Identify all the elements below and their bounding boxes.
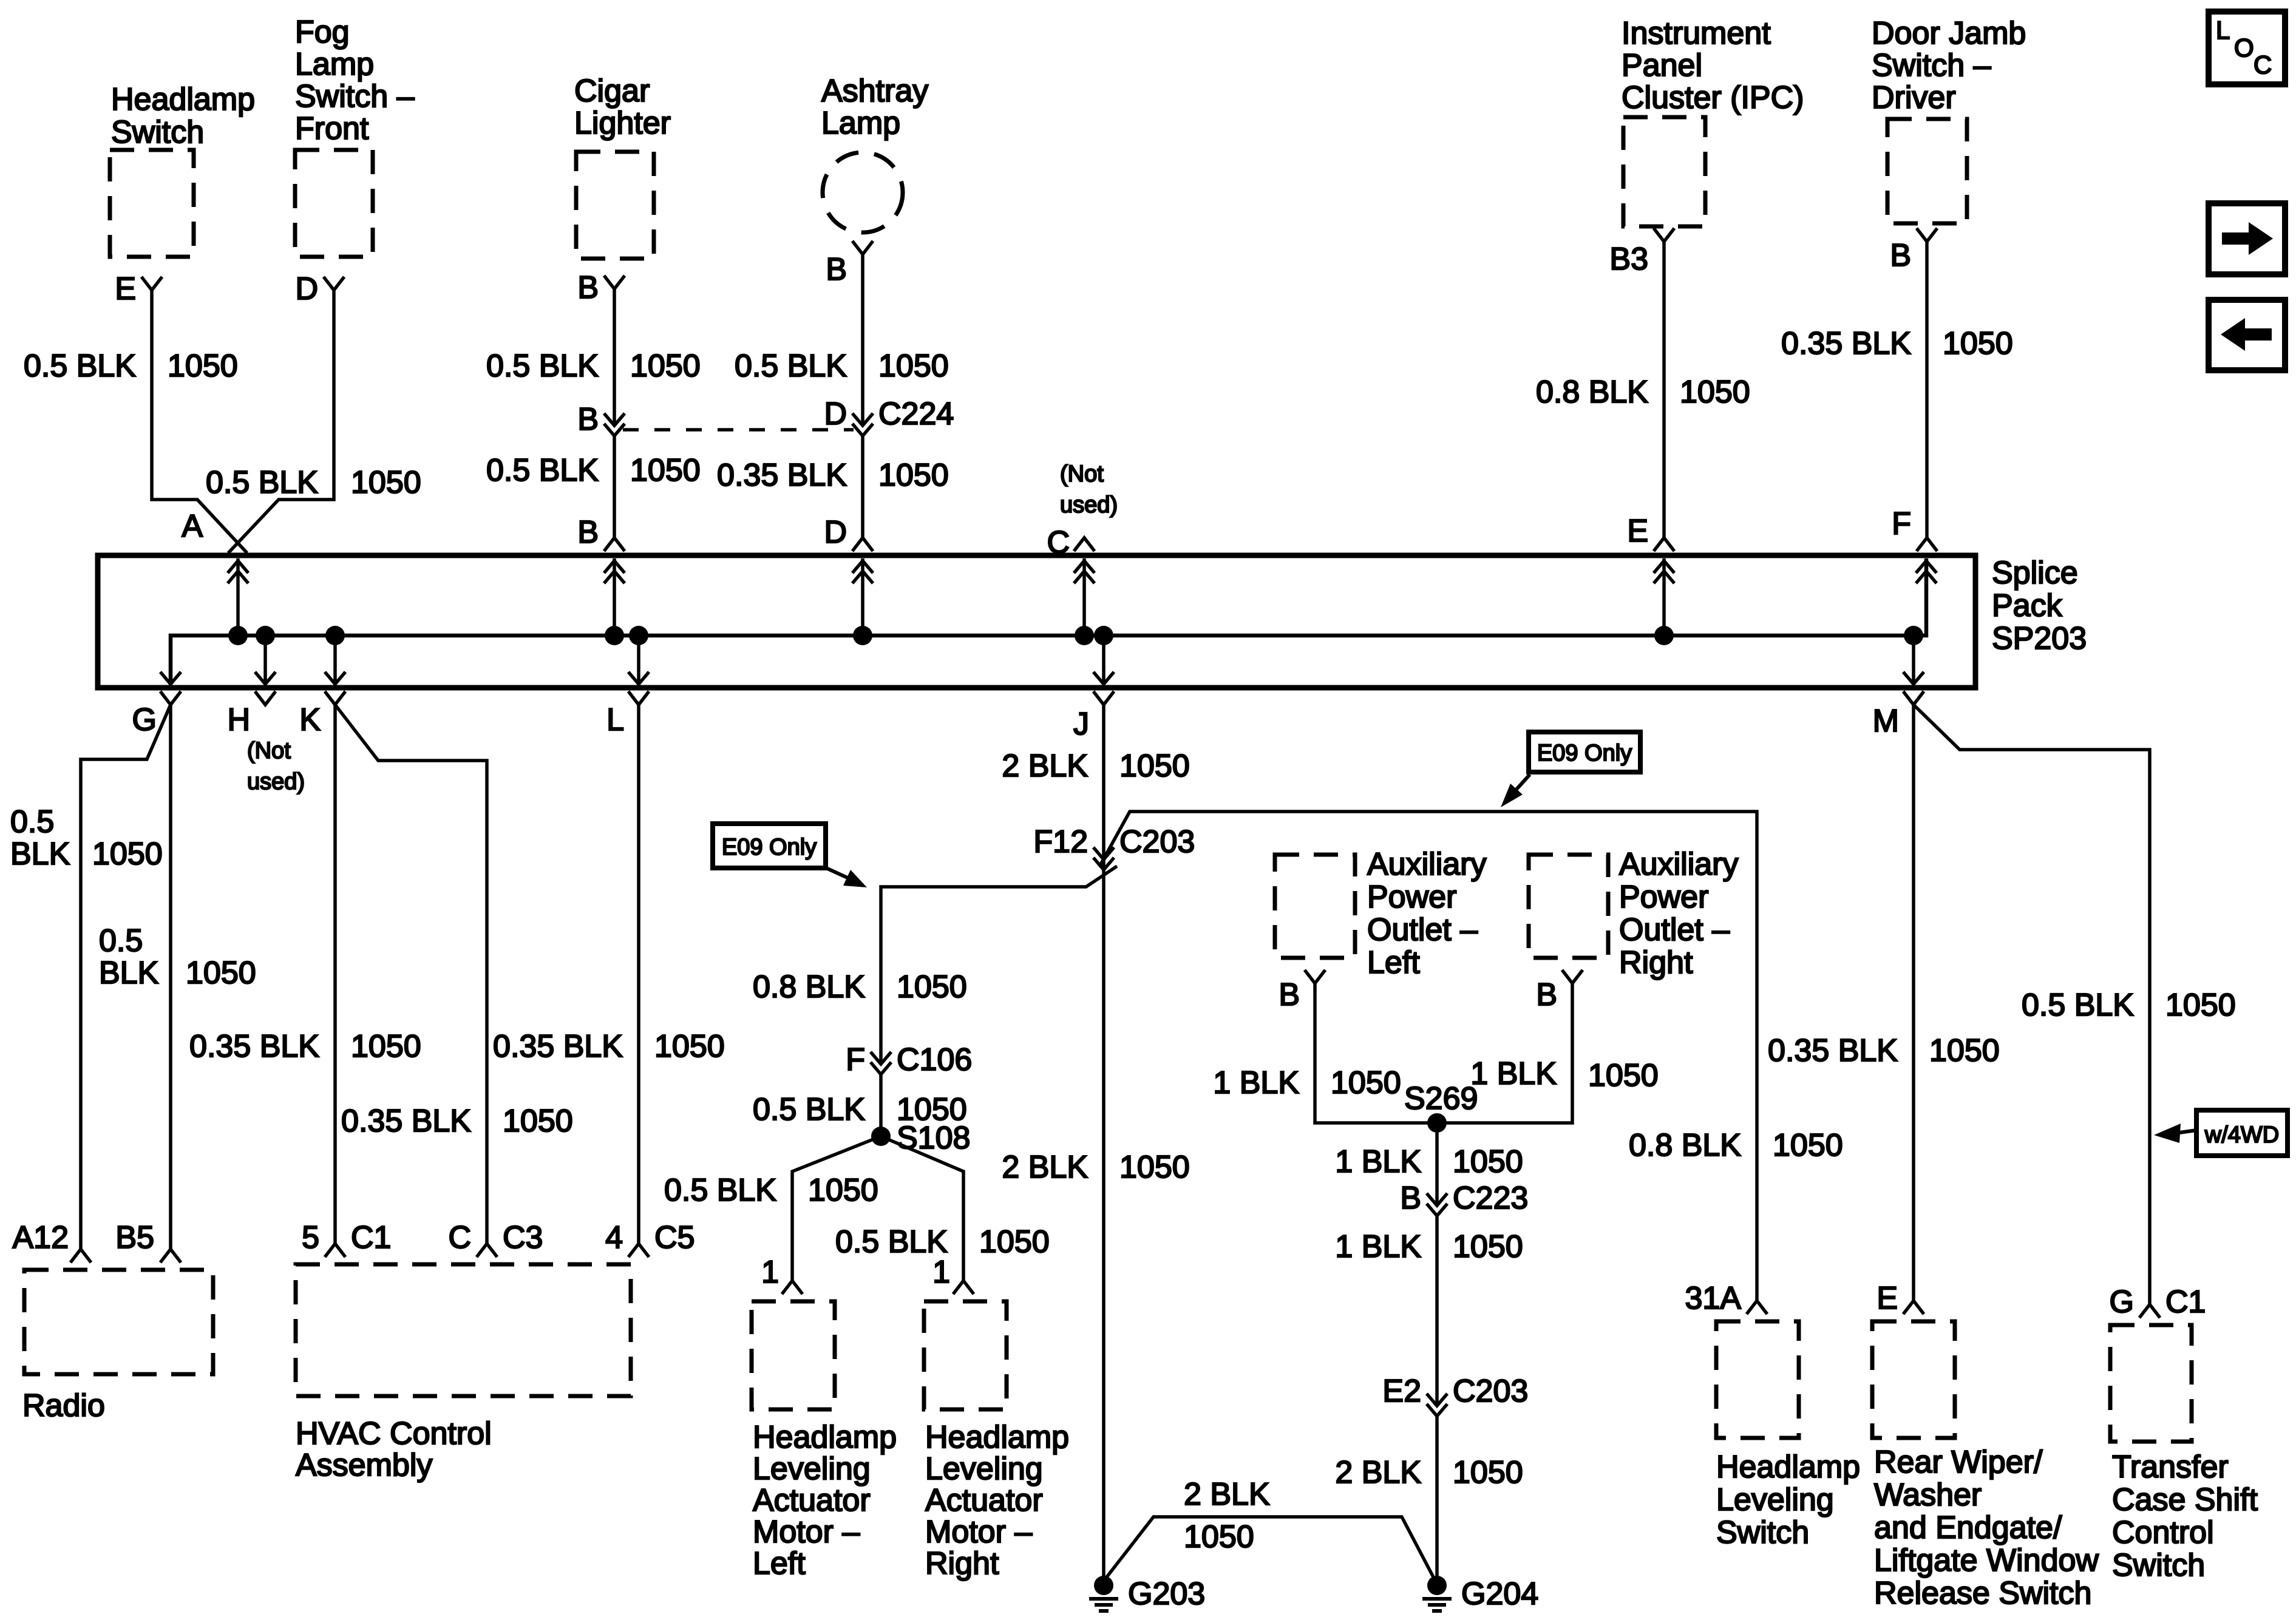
svg-text:Washer: Washer: [1874, 1477, 1982, 1513]
svg-text:S269: S269: [1404, 1081, 1478, 1116]
left arrow legend box: [2209, 300, 2285, 370]
svg-text:0.5 BLK: 0.5 BLK: [664, 1173, 776, 1208]
svg-text:Radio: Radio: [22, 1388, 105, 1423]
svg-text:Headlamp: Headlamp: [1716, 1449, 1860, 1485]
splice S108: [871, 1127, 891, 1146]
headlamp leveling actuator motor right box: [924, 1301, 1007, 1409]
svg-text:Switch: Switch: [1716, 1515, 1809, 1550]
terminal fork D fog lamp switch: [324, 277, 344, 290]
wire D fog lamp switch to splice A: [228, 290, 334, 553]
svg-text:C203: C203: [1453, 1374, 1528, 1409]
svg-text:Transfer: Transfer: [2112, 1449, 2229, 1485]
svg-text:F: F: [1892, 506, 1911, 541]
fork into transfer case switch: [2139, 1304, 2160, 1318]
wire S108 to left actuator: [792, 1136, 881, 1281]
svg-text:used): used): [247, 769, 305, 795]
door jamb switch box: [1887, 119, 1967, 223]
connector C106: [871, 1052, 891, 1064]
auxiliary power outlet left box: [1275, 855, 1355, 958]
svg-text:2 BLK: 2 BLK: [1002, 1150, 1088, 1185]
svg-text:0.5 BLK: 0.5 BLK: [2022, 988, 2134, 1023]
E09 only callout right: [1529, 732, 1640, 772]
svg-text:1050: 1050: [1943, 326, 2013, 361]
svg-text:0.35 BLK: 0.35 BLK: [1781, 326, 1911, 361]
svg-text:Left: Left: [1367, 945, 1420, 980]
wire J down to ground G203: [1102, 705, 1106, 1577]
connector C203 at E2: [1427, 1394, 1447, 1406]
fork into HVAC C5: [628, 1244, 649, 1257]
svg-text:C3: C3: [503, 1220, 543, 1255]
wire cigar C224 to splice B: [613, 436, 616, 540]
svg-text:E09 Only: E09 Only: [1537, 741, 1632, 766]
terminal fork B ashtray lamp: [852, 241, 873, 254]
svg-text:Leveling: Leveling: [1716, 1482, 1834, 1517]
wire S108 to right actuator: [881, 1136, 963, 1281]
svg-text:Lighter: Lighter: [574, 106, 671, 141]
svg-text:J: J: [1073, 707, 1089, 742]
svg-text:1050: 1050: [1453, 1144, 1523, 1179]
svg-text:E09 Only: E09 Only: [722, 835, 817, 860]
svg-text:Fog: Fog: [295, 15, 350, 50]
svg-text:0.5 BLK: 0.5 BLK: [753, 1092, 865, 1127]
svg-text:L: L: [606, 702, 624, 737]
svg-text:Switch: Switch: [2112, 1548, 2205, 1583]
stub fork C not used: [1074, 538, 1095, 551]
wire door jamb B to splice F: [1925, 242, 1929, 540]
svg-text:O: O: [2234, 33, 2254, 62]
splice pack SP203 outline: [98, 555, 1975, 688]
fork into headlamp leveling switch: [1747, 1301, 1767, 1314]
svg-text:G: G: [2110, 1284, 2134, 1320]
svg-text:S108: S108: [897, 1120, 970, 1156]
wire ashtray C224 to splice D: [861, 436, 864, 540]
terminal fork B3 IPC: [1654, 228, 1674, 242]
svg-text:0.35 BLK: 0.35 BLK: [717, 458, 847, 493]
svg-text:0.5: 0.5: [10, 804, 54, 839]
wire S269 to C223: [1435, 1123, 1439, 1205]
svg-text:1050: 1050: [878, 458, 949, 493]
svg-text:1050: 1050: [1119, 748, 1190, 784]
wire K to HVAC C1 pin 5: [333, 705, 337, 1244]
svg-text:E: E: [1877, 1281, 1898, 1316]
fork below splice L: [628, 691, 649, 705]
fork into actuator motor left: [782, 1281, 803, 1294]
svg-text:0.35 BLK: 0.35 BLK: [341, 1103, 471, 1139]
splice pack internal bus: [171, 636, 1914, 685]
svg-text:4: 4: [605, 1220, 623, 1255]
wire L to HVAC C5 pin 4: [637, 705, 640, 1244]
svg-text:1050: 1050: [1680, 375, 1750, 410]
svg-text:B: B: [1890, 238, 1911, 273]
svg-text:1050: 1050: [1453, 1455, 1523, 1490]
svg-text:B: B: [826, 252, 847, 287]
svg-text:2 BLK: 2 BLK: [1002, 748, 1088, 784]
svg-text:1050: 1050: [1929, 1033, 2000, 1068]
svg-text:1050: 1050: [168, 348, 238, 384]
svg-text:1050: 1050: [897, 969, 967, 1005]
svg-text:Front: Front: [295, 111, 369, 146]
terminal fork B door jamb: [1917, 228, 1937, 242]
svg-text:BLK: BLK: [99, 955, 159, 991]
connector C223: [1427, 1193, 1447, 1205]
svg-text:B: B: [577, 515, 599, 550]
svg-text:Switch –: Switch –: [295, 79, 415, 114]
svg-text:Splice: Splice: [1992, 555, 2078, 591]
svg-text:1050: 1050: [630, 348, 701, 384]
svg-text:Leveling: Leveling: [925, 1451, 1043, 1486]
E09 branch wire to S108: [881, 866, 1117, 1064]
svg-text:B: B: [1536, 977, 1557, 1012]
wire G to radio B5: [169, 705, 172, 1249]
radio box: [24, 1270, 213, 1374]
svg-text:Headlamp: Headlamp: [111, 82, 255, 117]
svg-text:D: D: [295, 271, 318, 307]
svg-text:0.5 BLK: 0.5 BLK: [835, 1224, 948, 1259]
svg-text:2 BLK: 2 BLK: [1184, 1477, 1270, 1512]
terminal fork B cigar lighter: [604, 276, 625, 289]
svg-text:C223: C223: [1453, 1181, 1528, 1216]
wire cigar lighter B to C224: [613, 289, 616, 425]
right arrow legend box: [2209, 203, 2285, 274]
svg-text:0.8 BLK: 0.8 BLK: [753, 969, 865, 1005]
svg-text:1 BLK: 1 BLK: [1335, 1144, 1421, 1179]
svg-text:Motor –: Motor –: [925, 1514, 1032, 1550]
svg-text:1050: 1050: [1119, 1150, 1190, 1185]
svg-text:2 BLK: 2 BLK: [1335, 1455, 1421, 1490]
wire ashtray B to C224: [861, 254, 864, 425]
svg-text:Lamp: Lamp: [295, 47, 374, 82]
ground G204: [1427, 1576, 1447, 1595]
svg-text:1050: 1050: [503, 1103, 573, 1139]
svg-text:Control: Control: [2112, 1515, 2214, 1550]
terminal fork B aux outlet right: [1562, 970, 1583, 983]
svg-text:HVAC Control: HVAC Control: [296, 1416, 492, 1451]
wire M to rear wiper switch E: [1912, 705, 1915, 1301]
wire C106 to S108: [879, 1074, 883, 1136]
terminal fork E headlamp switch: [141, 277, 162, 290]
svg-text:K: K: [299, 702, 321, 737]
fork into splice pack E: [1654, 538, 1674, 551]
svg-text:Door Jamb: Door Jamb: [1872, 16, 2026, 51]
wire M branch to transfer case switch: [1914, 705, 2150, 1304]
svg-text:Lamp: Lamp: [821, 106, 900, 141]
svg-text:B5: B5: [115, 1220, 154, 1255]
wire E2 to ground G204: [1435, 1416, 1439, 1577]
wire IPC B3 to splice E: [1662, 242, 1666, 540]
fork below splice K: [325, 691, 345, 705]
connector C203 at F12: [1093, 847, 1114, 859]
fork into splice pack B: [604, 538, 625, 551]
ground link wire 2 BLK 1050: [1105, 1517, 1435, 1579]
svg-text:Cluster (IPC): Cluster (IPC): [1622, 80, 1804, 115]
svg-text:1050: 1050: [808, 1173, 878, 1208]
connector C224 ashtray side: [852, 413, 873, 425]
headlamp leveling actuator motor left box: [752, 1301, 835, 1409]
svg-text:C1: C1: [351, 1220, 391, 1255]
svg-text:Right: Right: [925, 1546, 999, 1581]
svg-text:1050: 1050: [979, 1224, 1050, 1259]
svg-text:used): used): [1060, 492, 1118, 518]
svg-text:1050: 1050: [1331, 1065, 1401, 1100]
svg-text:Power: Power: [1367, 880, 1456, 915]
svg-text:0.35 BLK: 0.35 BLK: [189, 1029, 319, 1064]
svg-text:Switch: Switch: [111, 115, 204, 150]
svg-text:1050: 1050: [1184, 1519, 1254, 1554]
fog lamp switch box: [295, 150, 373, 257]
wire G branch to radio A12: [81, 705, 171, 1249]
svg-text:0.8 BLK: 0.8 BLK: [1536, 375, 1648, 410]
fork into radio A12: [70, 1249, 91, 1263]
wire aux left to S269: [1315, 983, 1437, 1123]
connector C224 cigar side: [604, 413, 625, 425]
svg-text:Cigar: Cigar: [574, 73, 650, 109]
w/4WD callout: [2196, 1110, 2288, 1156]
svg-text:Auxiliary: Auxiliary: [1367, 847, 1487, 882]
svg-text:Actuator: Actuator: [753, 1483, 871, 1518]
svg-text:D: D: [824, 515, 847, 550]
svg-text:1: 1: [761, 1255, 779, 1290]
wire C223 to C203 E2: [1435, 1216, 1439, 1406]
svg-text:1050: 1050: [186, 955, 256, 991]
svg-text:0.5 BLK: 0.5 BLK: [735, 348, 847, 384]
headlamp switch box: [110, 150, 194, 257]
transfer case shift control switch box: [2110, 1325, 2192, 1442]
svg-text:(Not: (Not: [247, 738, 291, 764]
internal down arrows: [263, 636, 267, 685]
dashed connector line C224: [623, 428, 854, 432]
fork into actuator motor right: [953, 1281, 974, 1294]
stub fork H not used: [255, 691, 276, 705]
E09 only callout left: [713, 824, 826, 868]
svg-text:C224: C224: [878, 396, 954, 432]
fork into radio B5: [160, 1249, 181, 1263]
svg-text:L: L: [2216, 16, 2230, 44]
svg-text:1050: 1050: [1773, 1128, 1843, 1163]
svg-text:Release Switch: Release Switch: [1874, 1576, 2091, 1611]
svg-text:A: A: [182, 509, 203, 544]
svg-text:G203: G203: [1128, 1576, 1205, 1612]
svg-text:B: B: [1279, 977, 1300, 1012]
svg-text:C5: C5: [654, 1220, 695, 1255]
svg-text:F: F: [846, 1042, 865, 1077]
svg-text:M: M: [1873, 703, 1899, 739]
IPC box: [1623, 117, 1705, 226]
wire aux right to S269: [1437, 983, 1572, 1123]
fork below splice G: [160, 691, 181, 705]
svg-text:1 BLK: 1 BLK: [1335, 1229, 1421, 1264]
internal up arrows: [236, 558, 240, 636]
svg-text:B: B: [577, 402, 599, 437]
svg-text:E2: E2: [1382, 1374, 1421, 1409]
svg-text:Assembly: Assembly: [296, 1448, 432, 1483]
wire E headlamp switch to splice A: [152, 290, 247, 553]
svg-text:C203: C203: [1119, 824, 1195, 859]
svg-text:1050: 1050: [92, 836, 163, 872]
rear wiper switch box: [1872, 1321, 1955, 1438]
svg-text:Panel: Panel: [1622, 48, 1702, 83]
svg-text:C106: C106: [897, 1042, 972, 1077]
svg-text:1: 1: [932, 1255, 950, 1290]
fork into HVAC C1: [325, 1244, 345, 1257]
svg-text:Ashtray: Ashtray: [821, 73, 928, 109]
svg-text:1050: 1050: [630, 453, 701, 488]
svg-text:Actuator: Actuator: [925, 1483, 1043, 1518]
svg-text:Pack: Pack: [1992, 588, 2063, 623]
svg-text:C: C: [2254, 50, 2272, 79]
svg-text:1 BLK: 1 BLK: [1213, 1065, 1299, 1100]
svg-text:and Endgate/: and Endgate/: [1874, 1510, 2062, 1545]
svg-text:1050: 1050: [654, 1029, 725, 1064]
svg-text:0.5: 0.5: [99, 923, 143, 958]
svg-text:Switch –: Switch –: [1872, 48, 1991, 83]
fork into rear wiper switch: [1903, 1301, 1924, 1314]
svg-text:B: B: [577, 270, 599, 305]
auxiliary power outlet right box: [1529, 855, 1608, 958]
HVAC control assembly box: [296, 1264, 631, 1396]
svg-text:B3: B3: [1609, 242, 1648, 277]
ashtray lamp circle: [823, 152, 903, 232]
fork below splice M: [1903, 691, 1924, 705]
svg-text:G: G: [132, 702, 157, 737]
svg-text:0.5 BLK: 0.5 BLK: [24, 348, 136, 384]
svg-text:Headlamp: Headlamp: [925, 1420, 1069, 1455]
fork into HVAC C3: [477, 1244, 497, 1257]
svg-text:H: H: [227, 702, 250, 737]
svg-text:Power: Power: [1619, 880, 1708, 915]
svg-text:1050: 1050: [351, 465, 421, 500]
svg-text:D: D: [824, 396, 847, 432]
svg-text:BLK: BLK: [10, 836, 70, 872]
svg-text:0.5 BLK: 0.5 BLK: [486, 453, 599, 488]
svg-text:Outlet –: Outlet –: [1619, 912, 1730, 947]
svg-text:1050: 1050: [1588, 1058, 1659, 1093]
svg-text:Driver: Driver: [1872, 80, 1956, 115]
svg-text:E: E: [1627, 514, 1648, 549]
svg-text:0.8 BLK: 0.8 BLK: [1629, 1128, 1741, 1163]
svg-text:E: E: [115, 271, 136, 307]
splice S269: [1427, 1113, 1447, 1133]
cigar lighter box: [576, 152, 654, 259]
svg-text:Motor –: Motor –: [753, 1514, 860, 1550]
svg-text:Left: Left: [753, 1546, 806, 1581]
svg-text:1 BLK: 1 BLK: [1470, 1056, 1557, 1091]
svg-text:0.35 BLK: 0.35 BLK: [1768, 1033, 1898, 1068]
E09 branch wire to headlamp leveling switch: [1101, 812, 1757, 1301]
svg-text:SP203: SP203: [1992, 621, 2087, 656]
svg-text:(Not: (Not: [1060, 461, 1104, 487]
svg-text:Rear Wiper/: Rear Wiper/: [1874, 1445, 2043, 1480]
svg-text:Liftgate Window: Liftgate Window: [1874, 1543, 2099, 1578]
svg-text:0.35 BLK: 0.35 BLK: [493, 1029, 623, 1064]
svg-text:0.5 BLK: 0.5 BLK: [486, 348, 599, 384]
svg-text:Instrument: Instrument: [1622, 16, 1771, 51]
svg-text:Case Shift: Case Shift: [2112, 1482, 2258, 1517]
svg-text:Leveling: Leveling: [753, 1451, 871, 1486]
ground G203: [1094, 1576, 1113, 1595]
svg-text:0.5 BLK: 0.5 BLK: [206, 465, 318, 500]
svg-text:G204: G204: [1461, 1576, 1538, 1612]
headlamp leveling switch box: [1716, 1321, 1799, 1438]
svg-text:A12: A12: [12, 1220, 69, 1255]
svg-text:1050: 1050: [351, 1029, 421, 1064]
svg-text:Auxiliary: Auxiliary: [1619, 847, 1739, 882]
svg-text:1050: 1050: [2165, 988, 2236, 1023]
svg-text:B: B: [1400, 1181, 1421, 1216]
svg-text:5: 5: [302, 1220, 319, 1255]
bus junction dots: [228, 626, 248, 645]
svg-text:C: C: [448, 1220, 471, 1255]
LOC legend box: [2209, 12, 2285, 84]
svg-text:F12: F12: [1033, 824, 1088, 859]
svg-text:C1: C1: [2165, 1284, 2206, 1320]
svg-text:1050: 1050: [878, 348, 949, 384]
fork into splice pack D: [852, 538, 873, 551]
fork into splice pack F: [1917, 538, 1937, 551]
svg-text:Right: Right: [1619, 945, 1693, 980]
fork below splice J: [1093, 691, 1114, 705]
svg-text:31A: 31A: [1685, 1281, 1741, 1316]
svg-text:w/4WD: w/4WD: [2204, 1122, 2279, 1148]
wire K branch to HVAC C3 pin C: [335, 705, 487, 1244]
svg-text:Outlet –: Outlet –: [1367, 912, 1478, 947]
svg-text:1050: 1050: [1453, 1229, 1523, 1264]
terminal fork B aux outlet left: [1305, 970, 1325, 983]
svg-text:Headlamp: Headlamp: [753, 1420, 897, 1455]
